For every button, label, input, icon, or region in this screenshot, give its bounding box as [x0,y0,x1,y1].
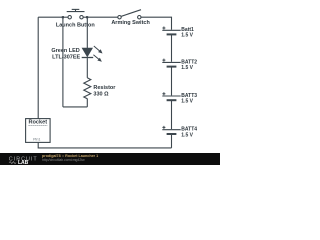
wire top rail mid (button to switch) [87,16,118,18]
wire battery3 to battery4 [171,101,173,129]
wire loop bottom [63,106,87,108]
battery BATT3 [162,92,180,100]
wire loop left branch [62,17,64,107]
wire battery1 to battery2 [171,35,173,62]
svg-text:Arming Switch: Arming Switch [111,20,150,26]
svg-text:330 Ω: 330 Ω [93,92,109,98]
pushbutton SW1 Launch Button [63,9,87,19]
svg-text:Pin1: Pin1 [33,138,40,142]
svg-text:1.5 V: 1.5 V [181,65,193,71]
wire bottom rail [38,142,171,148]
footer url text [42,159,85,163]
svg-text:LAB: LAB [18,160,29,165]
wire left rail [37,17,39,118]
battery BATT2 [162,59,180,67]
wire battery4 to bottom rail [171,135,173,148]
footer title text [42,155,98,159]
svg-text:1.5 V: 1.5 V [181,33,193,39]
node junction left of launch button [62,16,64,18]
svg-text:Launch Button: Launch Button [56,22,95,28]
LED D1 Green LED [82,46,102,61]
wire LED to resistor [86,58,88,78]
wire resistor to loop bottom [86,99,88,107]
switch SW2 Arming Switch [118,10,141,19]
CircuitLab logo [0,153,60,166]
svg-text:LTL-307EE: LTL-307EE [52,55,80,61]
battery BATT4 [162,126,180,134]
svg-text:Resistor: Resistor [93,85,116,91]
svg-text:1.5 V: 1.5 V [181,132,193,138]
svg-text:Green LED: Green LED [51,48,79,54]
svg-text:1.5 V: 1.5 V [181,99,193,105]
wire loop right top (button to LED) [86,17,88,48]
svg-text:Rocket: Rocket [28,120,47,126]
wire top rail left [38,16,63,18]
footer bar [0,153,220,166]
node junction right of launch button [86,16,88,18]
resistor R1 330 ohm [84,78,91,99]
wire battery2 to battery3 [171,67,173,95]
battery BATT1 [162,27,180,35]
rocket igniter box U1 [26,119,50,143]
wire switch to battery corner [141,17,171,30]
dashed underline under Rocket [29,124,48,126]
